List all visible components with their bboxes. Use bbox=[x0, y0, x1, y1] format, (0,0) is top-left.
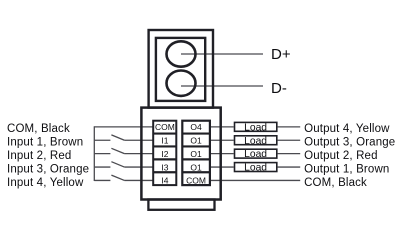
svg-text:Output 4, Yellow: Output 4, Yellow bbox=[304, 123, 390, 135]
svg-text:I1: I1 bbox=[161, 135, 168, 145]
svg-text:O4: O4 bbox=[190, 122, 202, 132]
svg-text:I4: I4 bbox=[161, 176, 168, 186]
svg-text:Input 3, Orange: Input 3, Orange bbox=[7, 163, 89, 175]
svg-text:O1: O1 bbox=[190, 149, 202, 159]
svg-text:Input 2, Red: Input 2, Red bbox=[7, 150, 71, 162]
svg-text:Load: Load bbox=[244, 163, 267, 174]
svg-text:Output 3, Orange: Output 3, Orange bbox=[304, 137, 395, 149]
svg-text:Output 1, Brown: Output 1, Brown bbox=[304, 163, 389, 175]
svg-text:Load: Load bbox=[244, 149, 267, 160]
svg-text:I2: I2 bbox=[161, 149, 168, 159]
svg-text:D-: D- bbox=[271, 80, 287, 97]
svg-text:COM: COM bbox=[155, 122, 175, 132]
svg-text:COM, Black: COM, Black bbox=[304, 177, 367, 189]
svg-text:D+: D+ bbox=[271, 46, 291, 63]
svg-text:Input 4, Yellow: Input 4, Yellow bbox=[7, 177, 84, 189]
svg-text:O1: O1 bbox=[190, 135, 202, 145]
svg-text:Load: Load bbox=[244, 122, 267, 133]
svg-text:O1: O1 bbox=[190, 162, 202, 172]
svg-text:COM, Black: COM, Black bbox=[7, 123, 70, 135]
svg-text:COM: COM bbox=[186, 176, 206, 186]
svg-text:Output 2, Red: Output 2, Red bbox=[304, 150, 378, 162]
svg-text:Load: Load bbox=[244, 136, 267, 147]
svg-text:I3: I3 bbox=[161, 162, 168, 172]
svg-text:Input 1, Brown: Input 1, Brown bbox=[7, 137, 83, 149]
